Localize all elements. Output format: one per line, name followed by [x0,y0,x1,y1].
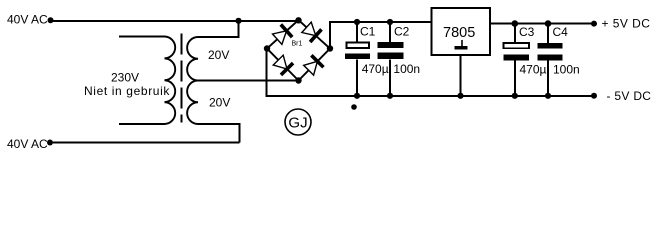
capacitor C4 plates [538,43,563,48]
node bridge top corner [295,17,301,23]
node bridge right corner [327,45,333,51]
wire bottom 40V AC line [53,142,240,144]
svg-text:C2: C2 [394,25,410,39]
stray dot [351,104,357,110]
regulator U1 7805 box [432,8,491,55]
wire secondary top lead riser [198,21,239,37]
node 40V AC bottom terminal [47,140,53,146]
junction C3 bottom [512,93,518,99]
node bridge bottom corner [295,77,301,83]
regulator U1 ground pin [460,55,462,96]
svg-text:C1: C1 [360,25,376,39]
junction C4 bottom [545,93,551,99]
svg-text:100n: 100n [393,62,420,76]
svg-text:100n: 100n [553,63,580,77]
svg-text:+ 5V DC: + 5V DC [602,17,651,31]
diode D4 lower-right (bottom corner to right corner) [303,55,324,76]
junction C1 top [354,19,360,25]
junction C1 bottom [354,93,360,99]
wire center tap to bridge bottom [198,80,299,82]
junction regulator ground [457,93,463,99]
svg-text:Br1: Br1 [292,40,303,47]
wire positive rail 7805 output to + terminal [490,22,594,24]
node bridge left corner [264,45,270,51]
capacitor C1 leads [356,22,358,43]
transformer T1 primary winding 230V [119,37,175,125]
regulator ground symbol inside box [461,40,463,46]
wire secondary bottom lead [198,124,240,143]
svg-text:470µ: 470µ [520,63,547,77]
junction secondary top tap [235,18,241,24]
svg-text:230V: 230V [111,71,139,85]
svg-text:7805: 7805 [443,25,475,41]
svg-text:20V: 20V [209,96,230,110]
transformer T1 secondary winding 20V+20V [187,37,198,124]
svg-text:C3: C3 [519,25,535,39]
junction C3 top [512,20,519,27]
svg-text:470µ: 470µ [362,62,389,76]
diode D3 lower-left (left corner to bottom corner) [272,54,293,75]
transformer core [180,34,182,123]
svg-text:40V AC: 40V AC [7,13,48,27]
capacitor C4 leads [547,23,549,43]
junction C4 top [545,20,552,27]
svg-text:Niet in gebruik: Niet in gebruik [84,84,170,98]
svg-text:- 5V DC: - 5V DC [607,89,652,103]
node + output terminal [591,21,597,27]
wire negative rail from bridge left corner [267,49,595,96]
node 40V AC top terminal [48,17,54,23]
diode D1 upper-left (left corner to top corner) [272,24,293,45]
initials circle GJ [285,109,311,135]
junction C2 top [387,19,393,25]
wire positive rail from bridge right corner to 7805 [330,22,432,49]
svg-text:20V: 20V [208,48,229,62]
diode D2 upper-right (top corner to right corner) [301,21,322,42]
svg-text:40V AC: 40V AC [7,137,48,151]
capacitor C3 plates (electrolytic) [504,43,530,48]
wire top 40V AC line [53,20,299,22]
capacitor C2 leads [389,22,391,43]
node - output terminal [591,93,597,99]
capacitor C2 plates [378,42,404,48]
capacitor C3 leads [514,23,516,43]
junction C2 bottom [387,93,393,99]
capacitor C1 plates (electrolytic) [347,43,370,49]
svg-text:GJ: GJ [288,115,307,132]
bridge rectifier Br1 diamond edges [267,20,330,81]
svg-text:C4: C4 [553,25,569,39]
